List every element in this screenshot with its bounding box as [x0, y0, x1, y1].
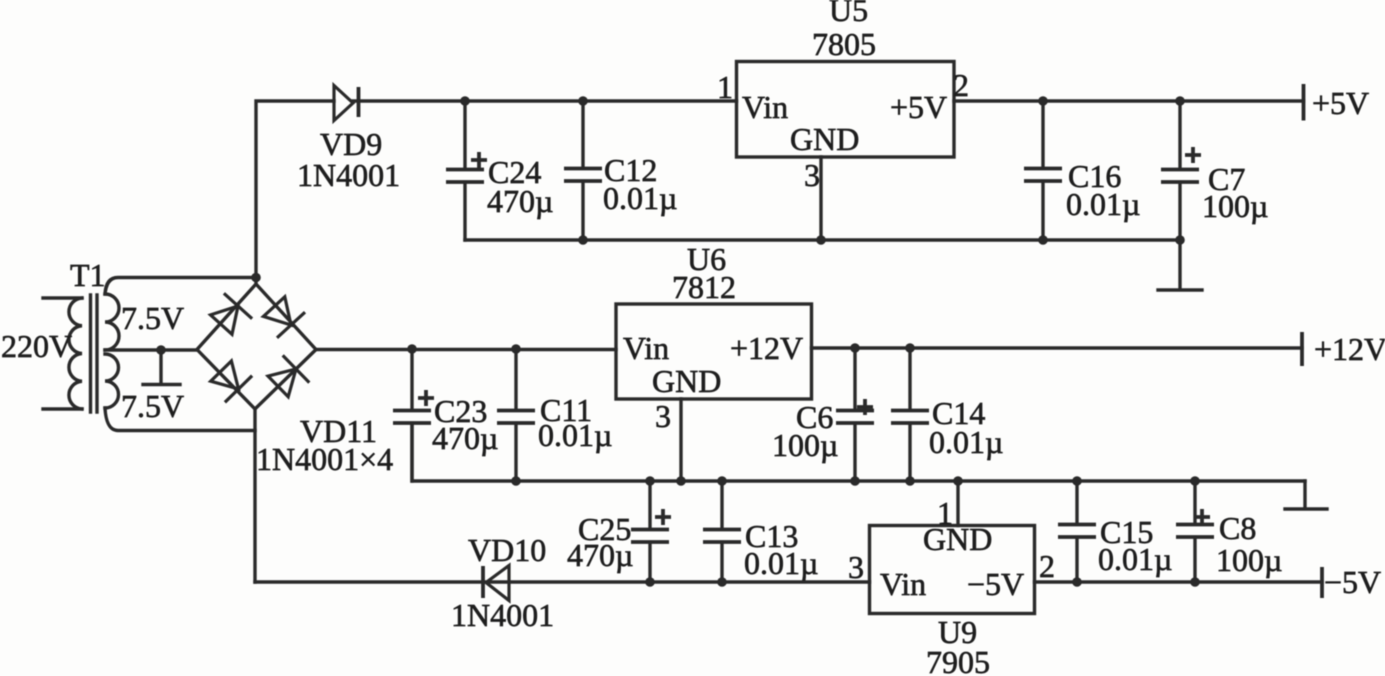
transformer T1 primary bottom lead — [43, 407, 82, 410]
wire top ground bus — [465, 238, 1180, 241]
svg-text:0.01µ: 0.01µ — [929, 424, 1003, 460]
svg-text:3: 3 — [655, 398, 671, 434]
svg-text:Vin: Vin — [742, 89, 788, 125]
svg-text:7805: 7805 — [812, 26, 876, 62]
wire middle ground bus — [412, 424, 1305, 481]
wire bridge top to +5V rail — [256, 101, 334, 284]
svg-text:2: 2 — [953, 67, 969, 103]
transformer T1 core — [91, 295, 98, 412]
capacitor C23 — [410, 349, 413, 409]
node bridge top junction — [251, 273, 261, 283]
op-amp U5 regulator box — [737, 62, 955, 158]
svg-text:T1: T1 — [70, 257, 106, 293]
svg-text:1: 1 — [937, 495, 953, 531]
wire -5V rail left — [255, 580, 870, 583]
wire secondary top lead — [105, 278, 256, 295]
capacitor C14 — [908, 348, 911, 409]
svg-text:C8: C8 — [1219, 510, 1256, 546]
svg-text:Vin: Vin — [880, 566, 926, 602]
op-amp U6 regulator box — [616, 304, 812, 399]
wire bridge bottom to -5V rail — [253, 409, 256, 582]
svg-text:0.01µ: 0.01µ — [603, 180, 677, 216]
ground at right of middle bus — [1285, 481, 1327, 509]
capacitor C11 — [514, 349, 517, 409]
-5V terminal — [1320, 567, 1324, 598]
svg-text:Vin: Vin — [623, 330, 669, 366]
transformer T1 secondary bottom winding — [105, 354, 119, 408]
wire center tap — [105, 348, 197, 351]
bridge diode upper-left — [211, 293, 253, 334]
bridge rectifier VD11 diamond — [197, 284, 316, 409]
svg-text:220V: 220V — [1, 328, 72, 364]
ground at center tap — [143, 350, 180, 385]
wire U5 pin2 to +5V terminal — [954, 99, 1304, 102]
svg-text:1N4001: 1N4001 — [297, 157, 400, 193]
op-amp U9 regulator box — [870, 526, 1035, 614]
wire U6 pin3 to mid bus — [679, 399, 682, 481]
svg-text:7812: 7812 — [672, 269, 736, 305]
node center tap junction — [156, 345, 166, 355]
wire +12V rail left — [316, 348, 616, 351]
transformer T1 secondary top winding — [105, 294, 119, 350]
svg-text:+5V: +5V — [1312, 85, 1369, 121]
wire U9 pin1 to mid bus — [956, 481, 959, 526]
svg-text:VD10: VD10 — [468, 532, 546, 568]
diode VD9 — [334, 86, 353, 121]
svg-text:100µ: 100µ — [1216, 542, 1282, 578]
wire +12V rail right — [812, 346, 1303, 349]
diode VD10 — [486, 566, 509, 601]
capacitor C12 — [581, 101, 584, 167]
+5V terminal — [1302, 84, 1306, 121]
wire U5 pin3 to ground bus — [819, 157, 822, 240]
svg-text:3: 3 — [804, 157, 820, 193]
svg-text:470µ: 470µ — [487, 183, 553, 219]
bridge diode lower-right — [268, 355, 309, 396]
svg-text:7.5V: 7.5V — [121, 300, 184, 336]
svg-text:0.01µ: 0.01µ — [744, 545, 818, 581]
svg-text:+12V: +12V — [730, 330, 803, 366]
svg-text:100µ: 100µ — [1202, 188, 1268, 224]
svg-text:U5: U5 — [829, 0, 868, 28]
capacitor C15 — [1075, 481, 1078, 523]
svg-text:3: 3 — [848, 549, 864, 585]
transformer T1 primary winding — [69, 298, 82, 409]
capacitor C13 — [720, 481, 723, 528]
svg-text:470µ: 470µ — [432, 420, 498, 456]
capacitor C25 — [648, 481, 651, 528]
capacitor C24 — [463, 101, 466, 168]
capacitor C7 — [1178, 101, 1181, 168]
bridge diode lower-left — [211, 361, 252, 402]
wire VD9 to U5 pin1 — [353, 99, 737, 102]
+12V terminal — [1300, 332, 1304, 366]
svg-text:+12V: +12V — [1314, 331, 1385, 367]
svg-text:7905: 7905 — [926, 644, 990, 676]
svg-text:+5V: +5V — [890, 89, 947, 125]
capacitor C16 — [1041, 101, 1044, 167]
capacitor C6 — [853, 348, 856, 409]
capacitor C8 — [1193, 481, 1196, 523]
wire secondary bottom lead — [105, 408, 255, 431]
svg-text:0.01µ: 0.01µ — [1098, 541, 1172, 577]
bridge diode upper-right — [263, 297, 305, 338]
node U5 pin3 on bus — [816, 235, 826, 245]
svg-text:1: 1 — [717, 69, 733, 105]
svg-text:−5V: −5V — [967, 566, 1024, 602]
svg-text:1N4001×4: 1N4001×4 — [256, 441, 393, 477]
svg-text:0.01µ: 0.01µ — [1066, 186, 1140, 222]
transformer T1 primary top lead — [43, 296, 82, 299]
svg-text:0.01µ: 0.01µ — [538, 417, 612, 453]
ground below C7 — [1158, 240, 1202, 290]
svg-text:GND: GND — [790, 121, 859, 157]
svg-text:−5V: −5V — [1324, 564, 1381, 600]
node U6 pin3 on bus — [676, 476, 686, 486]
svg-text:GND: GND — [652, 363, 721, 399]
svg-text:7.5V: 7.5V — [121, 388, 184, 424]
svg-text:100µ: 100µ — [772, 427, 838, 463]
svg-text:470µ: 470µ — [567, 537, 633, 573]
svg-text:2: 2 — [1039, 548, 1055, 584]
wire U9 pin2 to -5V terminal — [1035, 580, 1323, 583]
svg-text:1N4001: 1N4001 — [451, 597, 554, 633]
